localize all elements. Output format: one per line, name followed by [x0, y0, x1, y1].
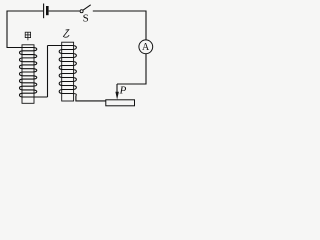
ammeter A circle: [139, 40, 153, 54]
rheostat body: [106, 100, 135, 106]
coil jia core rectangle: [22, 45, 34, 104]
svg-text:P: P: [119, 85, 127, 97]
rheostat slider arrow: [115, 92, 119, 100]
battery short thick plate (-): [46, 6, 49, 15]
coil yi core rectangle: [62, 42, 74, 101]
svg-text:S: S: [83, 13, 89, 25]
switch lever: [83, 5, 91, 10]
coil jia winding (feed from left wire, exit right to link): [7, 48, 48, 97]
switch S pivot circle: [80, 10, 83, 13]
battery long plate (+): [43, 4, 45, 19]
svg-text:A: A: [142, 42, 150, 53]
label jia (Chinese 甲) drawn as strokes: [25, 32, 30, 40]
wire top-left from battery to left edge and down: [7, 11, 43, 48]
wire link jia bottom up to yi top: [47, 46, 49, 97]
wire battery to switch: [49, 10, 80, 12]
coil yi winding (feed from link, exit right down to rheostat): [48, 46, 106, 101]
wire ammeter down to corner and left to slider: [117, 54, 146, 84]
label yi (Chinese 乙) drawn as strokes: [63, 30, 69, 38]
wire switch to top-right corner and down to ammeter: [93, 11, 146, 40]
rheostat slider stem: [116, 84, 118, 93]
